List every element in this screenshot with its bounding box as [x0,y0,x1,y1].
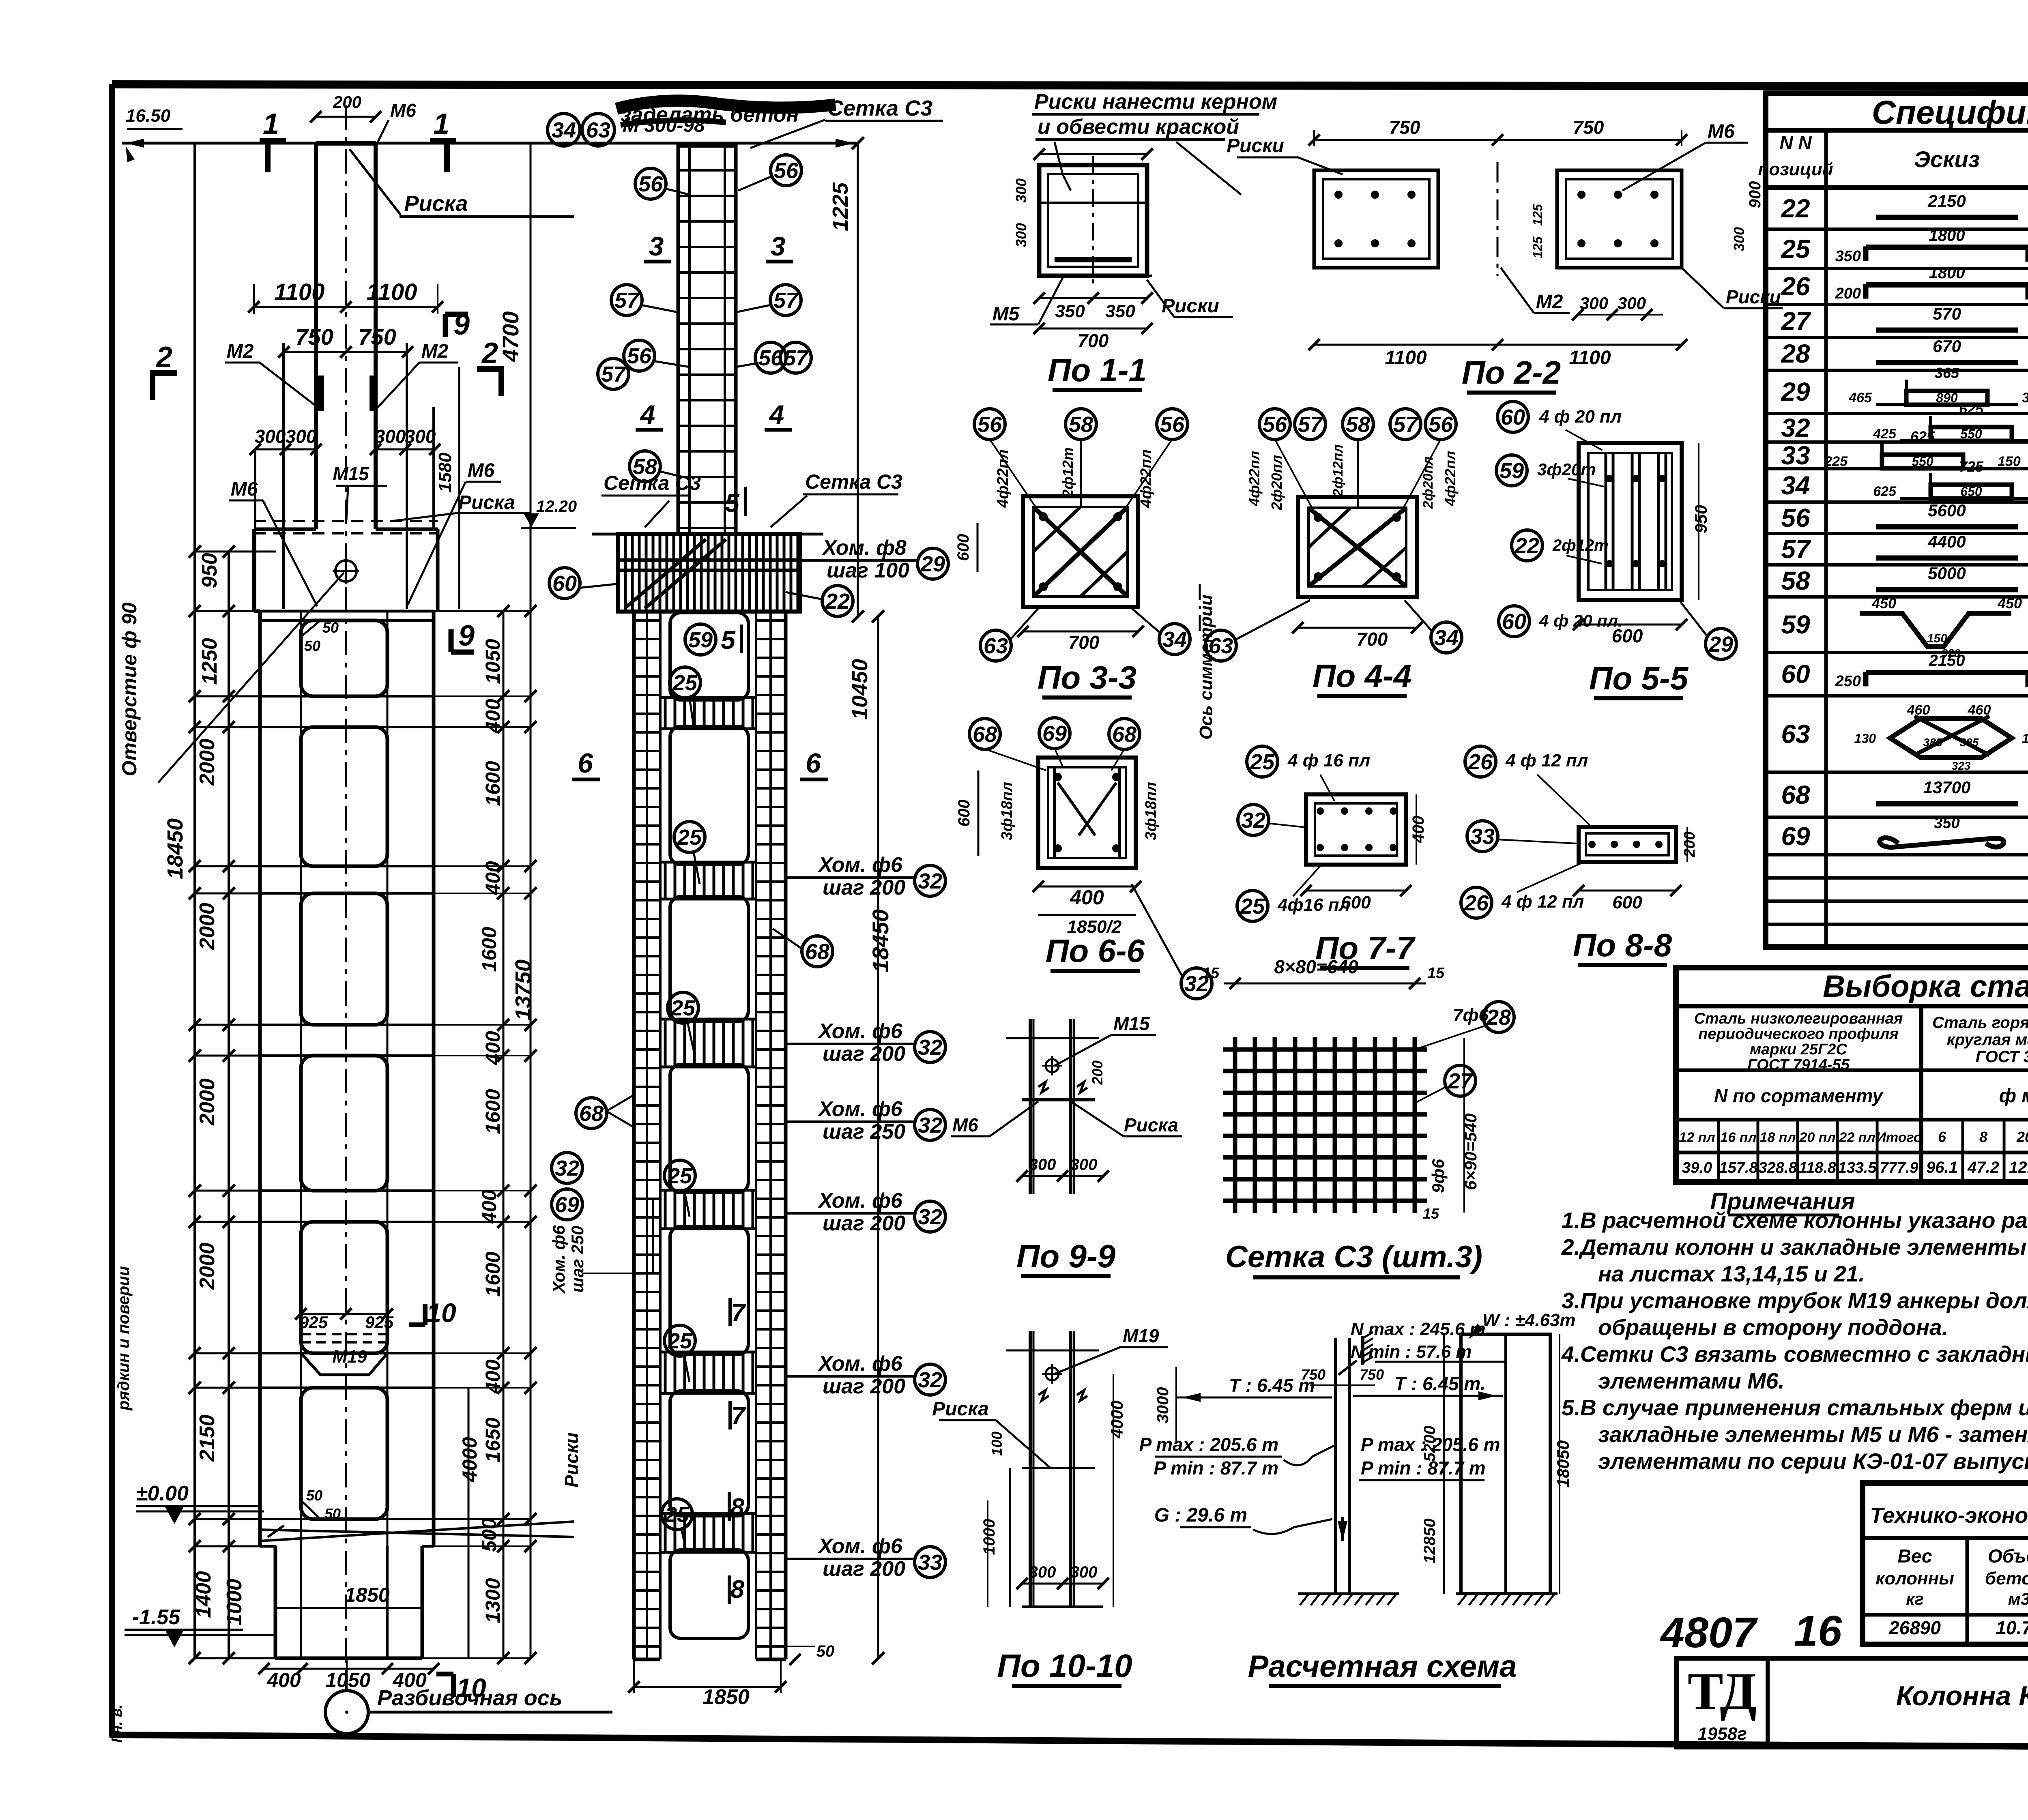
svg-text:22: 22 [825,589,850,614]
svg-text:периодического профиля: периодического профиля [1698,1026,1899,1043]
svg-text:8: 8 [730,1575,745,1603]
svg-text:и обвести краской: и обвести краской [1038,115,1239,139]
svg-text:1050: 1050 [325,1669,370,1691]
svg-text:57: 57 [784,346,809,370]
svg-text:750: 750 [358,324,396,350]
svg-text:Риска: Риска [1124,1114,1178,1135]
svg-text:6: 6 [806,748,821,779]
svg-text:4ф22пл: 4ф22пл [1138,449,1155,508]
svg-text:68: 68 [1781,780,1810,809]
svg-text:2150: 2150 [1927,191,1966,210]
svg-text:32: 32 [1241,808,1265,833]
svg-text:1300: 1300 [481,1578,504,1623]
svg-text:16 пл: 16 пл [1720,1130,1756,1145]
column B windows and stirrup bands [660,613,756,1638]
svg-text:Объем: Объем [1988,1545,2028,1567]
svg-text:1000: 1000 [223,1579,246,1626]
svg-text:890: 890 [1936,391,1958,405]
svg-text:250: 250 [1835,673,1861,690]
svg-text:16: 16 [1794,1607,1842,1655]
svg-text:4807: 4807 [1660,1609,1758,1657]
svg-text:Сетка С3: Сетка С3 [805,470,902,493]
svg-text:59: 59 [1500,459,1524,483]
design scheme [1139,1310,1576,1686]
svg-text:26: 26 [1468,750,1493,774]
svg-text:ГОСТ 380-57: ГОСТ 380-57 [1976,1048,2028,1066]
svg-text:725: 725 [1959,458,1984,475]
svg-text:56: 56 [774,159,799,183]
svg-text:По 6-6: По 6-6 [1046,933,1145,969]
notes (primechaniya) [1561,1188,2028,1474]
svg-text:550: 550 [1960,427,1982,441]
svg-text:2000: 2000 [195,903,219,950]
svg-text:25: 25 [1250,750,1275,774]
svg-text:1.В расчетной схеме колонны ук: 1.В расчетной схеме колонны указано расч… [1562,1208,2028,1233]
svg-text:27: 27 [1448,1069,1474,1093]
svg-text:10.75: 10.75 [1996,1617,2028,1638]
svg-text:29: 29 [1708,632,1733,657]
column A lightening holes [260,611,434,1546]
svg-text:4ф22пл: 4ф22пл [1246,451,1263,507]
svg-text:118.8: 118.8 [1799,1159,1837,1176]
svg-text:2ф12т: 2ф12т [1059,447,1076,498]
svg-text:25: 25 [664,1502,690,1527]
svg-text:425: 425 [1873,426,1897,442]
svg-text:G : 29.6 т: G : 29.6 т [1154,1505,1247,1526]
svg-text:Хом. ф6: Хом. ф6 [549,1225,568,1294]
svg-text:Риски нанести керном: Риски нанести керном [1034,90,1277,114]
svg-text:57: 57 [773,288,799,313]
svg-text:1600: 1600 [481,1251,504,1296]
svg-text:8×80=640: 8×80=640 [1274,956,1358,977]
svg-text:25: 25 [1240,894,1265,919]
svg-text:12.20: 12.20 [536,498,577,515]
svg-text:15: 15 [1423,1205,1439,1222]
svg-text:Отверстие ф 90: Отверстие ф 90 [118,602,141,776]
svg-text:3: 3 [649,231,664,261]
svg-text:М19: М19 [1123,1325,1159,1346]
svg-text:26890: 26890 [1888,1617,1941,1638]
svg-text:2.Детали колонн и закладные эл: 2.Детали колонн и закладные элементы пом… [1561,1234,2028,1260]
svg-text:18050: 18050 [1553,1440,1573,1488]
svg-text:По 4-4: По 4-4 [1313,658,1411,694]
svg-text:1850: 1850 [344,1584,389,1606]
mesh S3 [1202,956,1514,1277]
svg-text:50: 50 [324,1505,341,1522]
svg-text:М15: М15 [1113,1013,1150,1034]
svg-text:56: 56 [638,172,663,196]
svg-text:63: 63 [1781,719,1810,749]
svg-text:4: 4 [769,399,784,429]
svg-text:Риска: Риска [404,191,468,216]
svg-text:По 1-1: По 1-1 [1048,352,1147,388]
svg-text:300: 300 [1618,294,1646,313]
svg-text:625: 625 [1910,428,1935,445]
section Po 9-9 [951,1013,1182,1276]
svg-text:400: 400 [1070,886,1104,909]
svg-text:9: 9 [458,620,475,652]
svg-text:18 пл: 18 пл [1759,1130,1796,1145]
svg-text:элементами по серии КЭ-01-: элементами по серии КЭ-01-07 выпуск 9. [1598,1449,2028,1474]
svg-text:125: 125 [1530,204,1545,226]
svg-text:N по сортаменту: N по сортаменту [1714,1085,1884,1106]
svg-text:шаг 200: шаг 200 [823,876,905,899]
svg-text:323: 323 [1952,760,1971,772]
svg-text:68: 68 [805,940,829,964]
svg-text:200: 200 [1681,831,1698,857]
svg-text:32: 32 [555,1156,579,1180]
svg-text:обращены в сторону поддона.: обращены в сторону поддона. [1598,1315,1948,1340]
svg-text:М2: М2 [421,341,449,362]
svg-text:28: 28 [1781,339,1810,368]
svg-text:кг: кг [1906,1589,1924,1608]
section Po 3-3 [954,409,1190,698]
svg-text:1100: 1100 [367,279,417,305]
svg-text:60: 60 [1501,405,1525,429]
svg-text:8: 8 [1979,1129,1987,1145]
svg-text:5200: 5200 [1421,1426,1439,1462]
svg-text:68: 68 [1112,722,1136,747]
svg-text:57: 57 [601,362,627,386]
svg-text:200: 200 [333,92,361,112]
svg-text:Хом. ф6: Хом. ф6 [817,1019,903,1043]
column B top labels [548,96,943,779]
svg-text:13750: 13750 [511,959,535,1020]
svg-text:300: 300 [1013,178,1029,203]
svg-text:650: 650 [1960,484,1982,499]
svg-text:5600: 5600 [1928,501,1966,520]
svg-text:10: 10 [456,1673,486,1703]
svg-text:300: 300 [1731,227,1747,251]
svg-text:16.50: 16.50 [126,106,171,126]
svg-text:22: 22 [1781,194,1810,223]
svg-text:Хом. ф8: Хом. ф8 [821,536,907,560]
svg-text:М6: М6 [952,1114,978,1135]
svg-text:450: 450 [1871,595,1896,612]
svg-text:4000: 4000 [1107,1400,1126,1438]
svg-text:1650: 1650 [481,1417,504,1462]
svg-text:Спецификация арматуры: Спецификация арматуры [1872,94,2028,131]
svg-text:шаг 250: шаг 250 [568,1226,587,1293]
svg-text:750: 750 [1389,117,1420,138]
svg-text:350: 350 [1105,301,1135,321]
svg-text:32: 32 [918,1035,942,1060]
svg-text:5000: 5000 [1928,564,1966,583]
svg-text:34: 34 [1162,627,1187,652]
svg-text:300: 300 [1070,1156,1098,1174]
svg-text:N N: N N [1779,132,1812,153]
svg-text:3ф18пл: 3ф18пл [1143,782,1160,840]
svg-text:6: 6 [578,748,593,779]
svg-text:33: 33 [1781,441,1810,470]
svg-text:10: 10 [426,1298,456,1328]
svg-text:±0.00: ±0.00 [136,1482,189,1505]
svg-text:600: 600 [1612,893,1642,912]
svg-text:25: 25 [677,825,702,850]
svg-text:570: 570 [1933,304,1961,323]
svg-text:200: 200 [1835,285,1861,302]
svg-text:58: 58 [1781,566,1810,595]
svg-text:68: 68 [579,1101,604,1126]
svg-text:950: 950 [198,553,221,588]
svg-text:5: 5 [721,625,736,655]
svg-text:колонны: колонны [1875,1569,1954,1588]
svg-text:1050: 1050 [481,639,504,684]
svg-text:32: 32 [918,1368,942,1392]
svg-text:350: 350 [1055,301,1085,321]
svg-text:Т : 6.45 т.: Т : 6.45 т. [1394,1373,1485,1394]
svg-text:2150: 2150 [195,1414,219,1462]
svg-text:400: 400 [481,1359,504,1394]
svg-text:Сетка С3 (шт.3): Сетка С3 (шт.3) [1225,1240,1482,1274]
svg-text:57: 57 [1298,412,1323,437]
svg-text:925: 925 [299,1313,328,1332]
svg-text:ГОСТ 7914-55: ГОСТ 7914-55 [1747,1056,1850,1073]
svg-text:Хом. ф6: Хом. ф6 [817,1189,903,1213]
svg-text:2ф12пл: 2ф12пл [1330,444,1346,497]
svg-text:3ф18пл: 3ф18пл [999,782,1016,840]
svg-text:4000: 4000 [458,1437,481,1482]
svg-text:13700: 13700 [1923,778,1971,797]
svg-text:60: 60 [1781,659,1810,689]
svg-text:600: 600 [1341,893,1371,912]
column A top embeds M2/M6 [254,343,459,609]
svg-text:450: 450 [1997,595,2022,612]
svg-text:625: 625 [1959,401,1984,417]
svg-text:Колонна КДI-38: Колонна КДI-38 [1896,1680,2028,1711]
svg-text:25: 25 [672,671,698,695]
svg-text:По 3-3: По 3-3 [1038,659,1136,695]
svg-text:400: 400 [478,1189,501,1224]
svg-text:М15: М15 [333,463,370,484]
svg-text:460: 460 [1907,702,1930,718]
svg-text:Гн. в.: Гн. в. [108,1704,125,1743]
svg-text:69: 69 [555,1193,579,1217]
svg-text:круглая марки СТ.3: круглая марки СТ.3 [1947,1031,2028,1049]
svg-text:1: 1 [263,108,279,140]
svg-text:365: 365 [1935,365,1959,381]
svg-text:P max : 205.6 т: P max : 205.6 т [1139,1434,1279,1455]
svg-text:М5: М5 [993,303,1020,325]
svg-text:25: 25 [1781,234,1811,264]
svg-text:1250: 1250 [198,638,221,685]
svg-text:33: 33 [918,1550,942,1575]
svg-text:950: 950 [1691,505,1710,533]
column A axis circle [325,1686,612,1734]
svg-text:2000: 2000 [195,1243,219,1290]
column A section cut marks [150,108,504,1703]
svg-text:58: 58 [1069,412,1093,437]
top middle note [1032,90,1277,195]
svg-text:34: 34 [1434,626,1459,650]
svg-text:2: 2 [155,341,172,373]
svg-text:4ф16 пл: 4ф16 пл [1277,895,1350,915]
svg-text:Сетка С3: Сетка С3 [827,96,932,120]
svg-text:3000: 3000 [1154,1387,1172,1423]
svg-text:96.1: 96.1 [1926,1159,1958,1176]
svg-text:50: 50 [304,637,320,654]
svg-text:750: 750 [1301,1366,1326,1383]
svg-text:Риска: Риска [458,492,515,513]
svg-text:9ф6: 9ф6 [1429,1159,1448,1193]
svg-text:27: 27 [1781,307,1811,336]
svg-text:М2: М2 [1536,291,1563,313]
svg-text:465: 465 [1848,390,1872,406]
svg-text:3ф20т: 3ф20т [1537,460,1596,479]
svg-text:57: 57 [1393,412,1419,437]
rebar spec rows [1781,191,2028,851]
svg-text:Сталь низколегированная: Сталь низколегированная [1694,1010,1903,1027]
svg-text:300: 300 [1013,223,1029,247]
svg-text:200: 200 [1089,1060,1106,1085]
svg-text:28: 28 [1486,1005,1511,1030]
svg-text:400: 400 [266,1669,301,1691]
svg-text:1958г: 1958г [1697,1724,1747,1744]
svg-text:59: 59 [688,628,713,652]
column B body rails [634,612,786,1659]
svg-text:По 9-9: По 9-9 [1016,1238,1116,1274]
column B stirrup labels [549,487,948,1709]
svg-text:4 ф 12 пл: 4 ф 12 пл [1501,892,1584,912]
svg-text:2ф12т: 2ф12т [1552,537,1609,554]
svg-text:56: 56 [627,344,652,368]
svg-text:закладные элементы М5 и М6: закладные элементы М5 и М6 - затеняются … [1598,1422,2028,1447]
svg-text:М6: М6 [231,479,258,500]
svg-text:Итого: Итого [1876,1130,1922,1145]
svg-text:5.В случае применения стальн: 5.В случае применения стальных ферм и по… [1562,1395,2028,1420]
svg-text:700: 700 [1068,632,1100,653]
svg-text:N max : 245.6 т: N max : 245.6 т [1351,1319,1486,1339]
svg-text:29: 29 [1781,377,1810,406]
svg-text:2ф20пл: 2ф20пл [1420,457,1436,509]
svg-text:шаг 200: шаг 200 [823,1375,905,1398]
level marks [125,1482,275,1647]
svg-text:25: 25 [670,996,696,1020]
svg-text:М19: М19 [332,1347,367,1367]
svg-text:900: 900 [1746,181,1764,208]
svg-text:Сетка С3: Сетка С3 [604,472,701,494]
svg-text:4 ф 16 пл: 4 ф 16 пл [1287,751,1370,770]
svg-text:марки 25Г2С: марки 25Г2С [1750,1041,1847,1058]
svg-text:М2: М2 [227,341,254,362]
section Po 4-4 [1205,409,1462,696]
svg-text:элементами М6.: элементами М6. [1598,1368,1785,1393]
svg-text:56: 56 [1781,503,1810,532]
svg-text:670: 670 [1933,337,1961,356]
svg-text:130: 130 [1854,731,1876,746]
svg-text:8: 8 [730,1494,745,1522]
svg-text:550: 550 [1912,454,1933,469]
svg-text:56: 56 [1429,412,1453,437]
svg-text:600: 600 [954,534,972,561]
svg-text:50: 50 [306,1487,322,1504]
svg-text:350: 350 [1934,815,1959,832]
svg-text:32: 32 [918,869,942,893]
svg-text:22: 22 [1515,534,1539,558]
svg-text:12850: 12850 [1421,1518,1439,1563]
svg-text:32: 32 [1781,413,1810,442]
svg-text:4.Сетки С3 вязать совместно: 4.Сетки С3 вязать совместно с закладными [1561,1341,2028,1367]
svg-text:ф мм: ф мм [1999,1085,2028,1107]
svg-text:шаг 200: шаг 200 [823,1042,905,1066]
svg-text:69: 69 [1781,822,1810,851]
svg-text:34: 34 [1781,471,1810,500]
svg-text:400: 400 [392,1669,427,1691]
svg-text:385: 385 [1923,736,1942,749]
svg-text:1400: 1400 [192,1571,215,1618]
svg-text:1850: 1850 [702,1685,750,1709]
svg-text:500: 500 [478,1518,501,1552]
svg-text:69: 69 [1042,721,1067,746]
svg-text:300: 300 [1070,1563,1098,1581]
svg-text:Технико-экономические показат: Технико-экономические показатели колонны [1870,1503,2028,1528]
svg-text:700: 700 [1078,330,1109,351]
svg-text:63: 63 [984,634,1008,658]
svg-text:22 пл: 22 пл [1839,1130,1875,1145]
svg-text:4ф22пл: 4ф22пл [995,449,1012,508]
svg-text:шаг 250: шаг 250 [823,1120,905,1144]
section Po 8-8 [1461,746,1698,965]
svg-text:12.8: 12.8 [2009,1159,2028,1176]
svg-text:на листах 13,14,15 и 21.: на листах 13,14,15 и 21. [1598,1261,1865,1286]
svg-text:2000: 2000 [195,1078,219,1126]
svg-text:4ф22пл: 4ф22пл [1442,451,1459,507]
svg-text:150: 150 [1927,632,1947,645]
svg-text:157.8: 157.8 [1719,1159,1758,1176]
svg-text:1800: 1800 [1929,264,1965,282]
section Po 7-7 [1237,746,1427,968]
svg-text:50: 50 [322,619,339,636]
svg-text:шаг 200: шаг 200 [823,1212,905,1235]
svg-text:385: 385 [1960,736,1979,749]
section Po 1-1 [990,148,1233,390]
svg-text:1800: 1800 [1929,227,1965,245]
svg-text:4: 4 [640,399,655,429]
svg-text:1225: 1225 [828,182,853,231]
svg-text:Вес: Вес [1898,1545,1932,1567]
svg-text:130: 130 [2022,731,2028,746]
svg-text:шаг 200: шаг 200 [823,1557,905,1581]
svg-text:100: 100 [988,1432,1005,1456]
svg-text:Риска: Риска [932,1398,989,1420]
svg-text:7: 7 [731,1299,746,1327]
svg-text:18450: 18450 [163,818,187,879]
svg-text:6: 6 [1938,1129,1946,1145]
svg-text:400: 400 [481,1031,504,1065]
svg-text:шаг 100: шаг 100 [827,559,909,582]
svg-text:ТД: ТД [1688,1661,1757,1721]
svg-text:50: 50 [816,1642,835,1660]
section Po 5-5 [1496,401,1736,698]
svg-text:1600: 1600 [481,761,504,806]
svg-text:5: 5 [725,488,740,517]
svg-text:925: 925 [365,1313,394,1332]
column A foot [260,619,582,1658]
svg-text:P min : 87.7 т: P min : 87.7 т [1154,1457,1278,1479]
svg-text:4 ф 20 пл: 4 ф 20 пл [1539,407,1622,427]
svg-text:700: 700 [1357,629,1388,650]
svg-text:60: 60 [552,571,577,596]
svg-text:Риски: Риски [561,1432,582,1487]
svg-text:57: 57 [614,288,640,313]
svg-text:20 пл: 20 пл [1799,1130,1835,1145]
svg-text:39.0: 39.0 [1682,1159,1712,1176]
rebar specification table [1758,93,2028,947]
svg-text:400: 400 [481,699,504,733]
svg-text:Хом. ф6: Хом. ф6 [817,1097,903,1121]
svg-text:Выборка стали на колонну: Выборка стали на колонну [1823,969,2028,1004]
svg-text:По 2-2: По 2-2 [1462,354,1561,391]
